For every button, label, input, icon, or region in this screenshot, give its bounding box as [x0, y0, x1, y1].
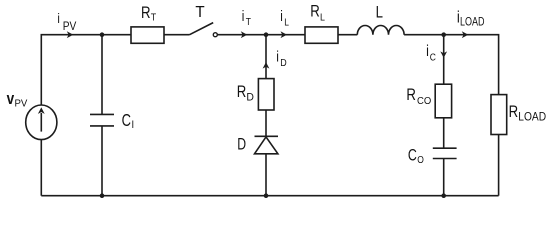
label i_T: [242, 8, 245, 25]
svg-text:L: L: [320, 12, 325, 24]
wire R_LOAD to bottom rail: [498, 135, 500, 196]
arrowhead i_LOAD: [462, 31, 469, 38]
svg-text:I: I: [132, 119, 135, 131]
bottom rail: [41, 195, 498, 197]
capacitor C_I plates: [90, 113, 114, 115]
svg-text:i: i: [280, 8, 283, 25]
svg-text:i: i: [242, 8, 245, 25]
wire R_D to diode: [265, 110, 267, 136]
junction node bottom C_I: [100, 193, 105, 198]
svg-text:CO: CO: [417, 96, 432, 107]
label R_LOAD: [509, 103, 519, 122]
svg-text:PV: PV: [15, 98, 28, 109]
label i_PV: [57, 11, 59, 26]
arrowhead i_D (up): [263, 62, 270, 69]
arrowhead i_L: [281, 31, 288, 38]
wire top-left corner and left vertical: [41, 35, 131, 105]
svg-text:R: R: [141, 4, 151, 23]
inductor L: [357, 25, 404, 34]
junction node diode branch top: [264, 32, 269, 37]
svg-text:R: R: [310, 2, 320, 21]
wire C_O to bottom rail: [443, 159, 445, 196]
svg-text:v: v: [7, 89, 15, 108]
svg-text:T: T: [246, 16, 251, 27]
svg-text:R: R: [237, 83, 247, 102]
wire C_I branch lower: [101, 126, 103, 196]
svg-text:C: C: [122, 111, 131, 131]
v_PV internal arrow: [40, 113, 42, 132]
label T: [195, 4, 205, 21]
resistor R_L: [305, 27, 338, 43]
label L: [376, 3, 383, 22]
svg-text:LOAD: LOAD: [460, 15, 485, 29]
wire R_CO to C_O: [443, 118, 445, 148]
junction node bottom output: [441, 193, 446, 198]
capacitor C_O plates: [433, 147, 457, 149]
wire C_I branch upper: [101, 35, 103, 115]
resistor R_LOAD: [491, 95, 507, 135]
svg-text:PV: PV: [63, 20, 77, 33]
wire inductor to output node: [404, 34, 444, 36]
resistor R_D: [258, 79, 274, 110]
svg-text:D: D: [280, 57, 286, 69]
diode D triangle: [255, 137, 278, 154]
junction node top C_I: [100, 32, 105, 37]
wire switch to diode node: [218, 34, 267, 36]
voltage source v_PV circle: [26, 105, 57, 140]
svg-text:C: C: [430, 52, 436, 63]
svg-text:R: R: [406, 86, 416, 105]
svg-text:L: L: [376, 3, 383, 22]
svg-text:i: i: [276, 48, 279, 65]
label C_O: [408, 147, 417, 165]
label i_D: [276, 48, 279, 65]
svg-text:O: O: [417, 154, 424, 165]
arrowhead i_T: [241, 31, 248, 38]
wire node to R_L: [266, 34, 305, 36]
label R_D: [237, 83, 247, 102]
svg-text:i: i: [426, 42, 429, 60]
wire R_T to switch: [164, 34, 190, 36]
svg-text:LOAD: LOAD: [518, 111, 546, 124]
svg-text:D: D: [237, 136, 246, 154]
svg-text:T: T: [195, 4, 205, 21]
label v_PV: [7, 89, 15, 108]
label i_L: [280, 8, 283, 25]
label R_CO: [406, 86, 416, 105]
wire v_PV to bottom rail: [40, 140, 42, 196]
arrowhead i_PV: [67, 31, 74, 38]
wire output branch upper: [443, 35, 445, 84]
switch T blade: [190, 23, 214, 35]
svg-text:L: L: [284, 17, 289, 28]
label R_L: [310, 2, 320, 21]
junction node output top: [441, 32, 446, 37]
junction node bottom diode: [264, 193, 269, 198]
svg-text:R: R: [509, 103, 519, 122]
resistor R_CO: [435, 84, 451, 118]
switch T contact circle: [213, 33, 217, 37]
svg-text:D: D: [246, 91, 254, 103]
label C_I: [122, 111, 131, 131]
svg-text:i: i: [57, 11, 59, 26]
arrowhead i_C (down): [440, 51, 447, 58]
wire diode branch upper: [265, 35, 267, 79]
diode D cathode bar: [255, 135, 279, 137]
label i_LOAD: [457, 8, 460, 27]
svg-text:T: T: [151, 12, 156, 24]
label i_C: [426, 42, 429, 60]
resistor R_T: [131, 27, 164, 43]
wire R_L to inductor: [338, 34, 357, 36]
label R_T: [141, 4, 151, 23]
wire node to top-right corner down to R_LOAD: [444, 35, 499, 95]
wire diode to bottom rail: [265, 154, 267, 196]
svg-text:C: C: [408, 147, 417, 165]
label D: [237, 136, 246, 154]
